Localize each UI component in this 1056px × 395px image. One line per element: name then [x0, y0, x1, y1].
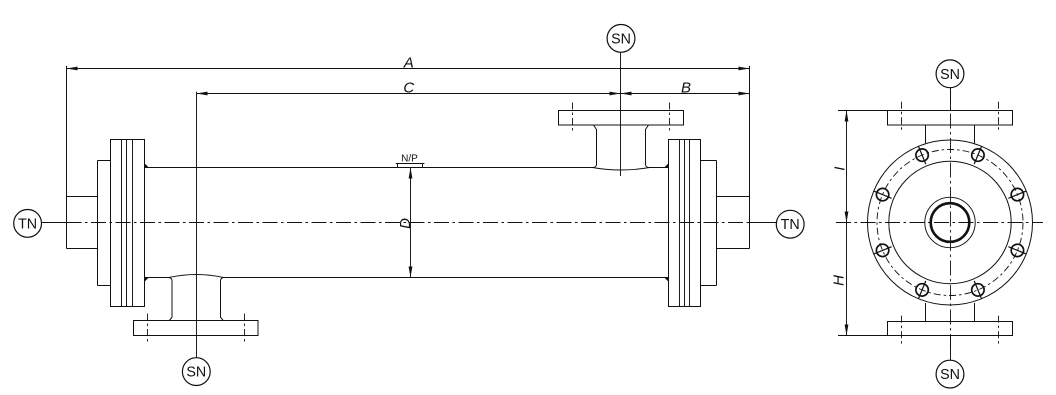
center tube outer circle — [925, 197, 975, 247]
svg-text:H: H — [830, 275, 847, 286]
end view top flange neck — [926, 125, 975, 143]
shell opening arc above bottom nozzle — [169, 275, 224, 278]
dimension D (shell diameter) — [397, 168, 414, 278]
weld bevel bottom-left — [145, 278, 148, 281]
nozzle label SN (bottom) — [182, 358, 210, 386]
end view bottom flange bolt lines — [902, 316, 999, 345]
flange bolt 7 — [972, 281, 984, 299]
left girth flange stack (channel flange / tubesheet / shell flange) — [111, 140, 145, 307]
svg-text:N/P: N/P — [401, 153, 418, 164]
dim I/H arrowheads — [845, 111, 849, 336]
bottom nozzle flange plate — [134, 321, 259, 336]
svg-text:B: B — [681, 80, 691, 97]
svg-text:D: D — [397, 218, 414, 229]
svg-text:SN: SN — [611, 31, 631, 47]
svg-text:C: C — [403, 80, 414, 97]
nozzle label SN (end view bottom) — [936, 336, 964, 389]
flange OD circle — [868, 140, 1033, 305]
end view bottom flange neck — [926, 303, 975, 322]
svg-text:A: A — [403, 55, 414, 72]
weld bevel bottom-right — [665, 278, 668, 281]
shell (cylindrical body) — [145, 168, 669, 278]
top nozzle centerline and dim-C extension line — [620, 52, 622, 176]
left TN stub pipe with dim-A extension edge — [67, 66, 98, 249]
dimension B — [621, 80, 750, 97]
dim A arrowheads — [67, 67, 750, 71]
dim D arrowheads — [409, 168, 413, 278]
end view top flange plate — [888, 111, 1013, 126]
right TN stub pipe with dim extension edge — [717, 66, 750, 249]
nameplate N/P — [396, 153, 425, 167]
svg-text:SN: SN — [940, 367, 960, 383]
end view top flange bolt lines — [902, 102, 999, 131]
bottom nozzle centerline and dim-C extension line — [196, 92, 198, 358]
dimension C — [197, 80, 621, 97]
shell opening arc under top nozzle — [593, 168, 650, 171]
flange bolt 6 — [916, 281, 928, 299]
label H — [830, 275, 847, 286]
dim C arrowheads — [197, 92, 621, 96]
bottom shell nozzle SN neck — [169, 278, 224, 321]
right backing ring — [701, 161, 717, 286]
weld bevel top-right — [665, 164, 668, 167]
nozzle label TN (right) — [750, 210, 805, 238]
weld bevel top-left — [145, 164, 148, 167]
nozzle label TN (left) — [14, 210, 67, 238]
label I — [831, 167, 848, 171]
flange bolt 5 — [874, 244, 892, 256]
dim B arrowheads — [621, 92, 750, 96]
bottom nozzle bolt lines — [148, 314, 245, 344]
bolt circle (dash-dot) — [877, 150, 1023, 296]
top nozzle neck — [593, 125, 650, 168]
top shell nozzle SN flange plate — [559, 111, 684, 126]
center tube bore circle — [931, 203, 970, 242]
end view bottom flange plate — [888, 322, 1013, 336]
gasket face circle — [889, 161, 1011, 283]
dim I/H extension lines — [838, 111, 888, 336]
svg-text:SN: SN — [186, 365, 206, 381]
end view vertical centerline — [950, 89, 952, 357]
svg-text:TN: TN — [781, 217, 800, 233]
end view horizontal centerline — [836, 222, 1043, 224]
left backing ring — [98, 161, 111, 286]
nozzle label SN (end view top) — [936, 60, 964, 111]
dimension line I/H — [846, 111, 848, 336]
main horizontal centerline (side view) — [42, 222, 776, 224]
svg-text:TN: TN — [18, 216, 37, 232]
svg-text:I: I — [831, 167, 848, 171]
top nozzle bolt lines — [573, 103, 670, 132]
nozzle label SN (top) — [607, 25, 635, 53]
right girth flange stack (shell flange / tubesheet / channel flange) — [669, 140, 701, 307]
dimension A — [67, 55, 750, 72]
svg-text:SN: SN — [940, 67, 960, 83]
flange bolt 4 — [874, 188, 892, 200]
flange bolt 3 — [916, 146, 928, 164]
flange bolt 1 — [1008, 188, 1026, 200]
flange bolt 2 — [972, 146, 984, 164]
flange bolt 8 — [1008, 244, 1026, 256]
